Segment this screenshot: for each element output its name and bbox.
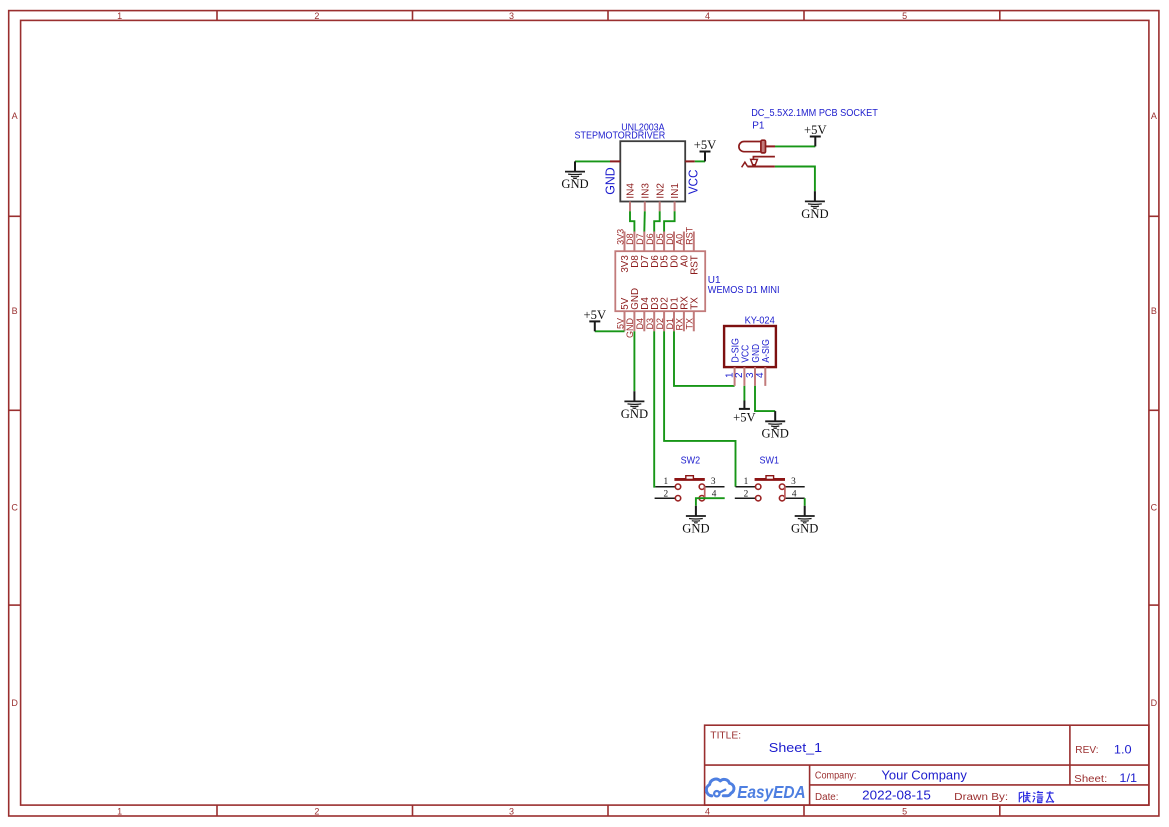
U1 pin 3V3 (top): [615, 229, 631, 273]
svg-text:4: 4: [705, 806, 710, 816]
M1 pin 1 D-SIG: [724, 338, 741, 386]
svg-text:4: 4: [705, 11, 710, 21]
svg-text:SW2: SW2: [681, 456, 701, 467]
wire IN3 to D7: [643, 211, 646, 231]
U2 pin IN1: [670, 183, 681, 212]
svg-text:D: D: [11, 698, 18, 708]
svg-text:IN4: IN4: [626, 183, 637, 199]
EasyEDA logo cloud: [706, 779, 734, 796]
U1 pin D8 (top): [625, 232, 641, 268]
wire U2 GND to ground: [575, 160, 610, 162]
power +5V at M1 VCC (down): [733, 401, 756, 425]
wire net D2 to SW1: [664, 331, 735, 486]
svg-text:WEMOS D1 MINI: WEMOS D1 MINI: [708, 285, 780, 296]
U1 pin D7 (top): [635, 232, 651, 268]
title block grid: [705, 725, 1149, 805]
svg-text:D7: D7: [635, 233, 645, 245]
svg-text:1/1: 1/1: [1119, 771, 1137, 785]
svg-text:Date:: Date:: [815, 792, 839, 803]
svg-text:D5: D5: [655, 233, 665, 245]
svg-text:Sheet_1: Sheet_1: [769, 740, 822, 755]
pushbutton SW2: [655, 476, 725, 501]
svg-text:RST: RST: [685, 226, 695, 245]
svg-text:DC_5.5X2.1MM PCB SOCKET: DC_5.5X2.1MM PCB SOCKET: [751, 108, 878, 119]
svg-text:P1: P1: [752, 121, 765, 132]
U2 pin VCC (right): [685, 161, 700, 194]
svg-text:VCC: VCC: [740, 345, 751, 363]
U1 value label WEMOS D1 MINI: [708, 285, 780, 296]
power +5V at U1 5V: [584, 308, 607, 331]
U1 pin D1 (bottom): [665, 297, 681, 331]
U1 pin D4 (bottom): [635, 297, 651, 332]
svg-text:REV:: REV:: [1075, 745, 1098, 756]
svg-text:A0: A0: [675, 234, 685, 245]
company value Your Company: [881, 768, 967, 782]
title value Sheet_1: [769, 740, 822, 755]
op-amp driver IC U2 UNL2003A body: [620, 141, 685, 201]
svg-text:1.0: 1.0: [1114, 742, 1132, 756]
ground GND below U1: [621, 391, 648, 421]
ground GND at SW2: [682, 506, 709, 536]
U2 pin IN3: [640, 183, 651, 212]
wire net D1 to KY-024 pin1: [674, 331, 735, 386]
wire SW2 pin4 to ground: [696, 498, 725, 506]
svg-text:D0: D0: [665, 233, 675, 245]
svg-text:5: 5: [902, 11, 907, 21]
connector P1 DC socket barrel: [739, 140, 766, 153]
svg-text:SW1: SW1: [760, 456, 780, 467]
svg-text:D2: D2: [655, 318, 665, 330]
date value 2022-08-15: [862, 789, 931, 803]
M1 pin 4 A-SIG: [755, 339, 772, 386]
svg-text:D: D: [1151, 698, 1158, 708]
U1 pin RX (bottom): [675, 296, 691, 332]
wire U1 5V to +5V: [595, 330, 625, 332]
U2 value label UNL2003A: [621, 122, 665, 133]
wire net D3 to SW2: [654, 331, 655, 486]
ground GND at SW1: [791, 506, 818, 536]
U1 pin D3 (bottom): [645, 297, 661, 332]
M1 pin 2 VCC: [734, 345, 751, 386]
wire IN4 to D8: [630, 211, 634, 231]
svg-text:2: 2: [314, 806, 319, 816]
SW2 reference label: [681, 456, 701, 467]
svg-text:RX: RX: [675, 318, 685, 331]
svg-text:2: 2: [314, 11, 319, 21]
P1 pin 2 switch contact: [742, 157, 775, 168]
svg-text:C: C: [1151, 503, 1158, 513]
svg-text:VCC: VCC: [686, 170, 700, 195]
svg-text:3: 3: [509, 806, 514, 816]
U1 pin D6 (top): [645, 232, 661, 268]
title label TITLE:: [710, 731, 741, 742]
wire M1 GND to ground: [755, 386, 775, 411]
EasyEDA logo wordmark: [737, 782, 806, 802]
U1 pin D2 (bottom): [655, 297, 671, 331]
svg-text:Drawn By:: Drawn By:: [954, 792, 1008, 803]
pushbutton SW1: [735, 476, 805, 501]
power +5V at U2 VCC: [694, 138, 717, 161]
U2 pin GND (left): [603, 161, 620, 194]
company label Company:: [815, 771, 857, 782]
wire IN2 to D6: [654, 211, 660, 231]
sheet label Sheet:: [1074, 774, 1107, 785]
sheet value 1/1: [1119, 771, 1137, 785]
rev value 1.0: [1114, 742, 1132, 756]
wire P1 tip to +5V: [775, 145, 815, 147]
svg-text:2: 2: [734, 372, 745, 378]
svg-text:STEPMOTORDRIVER: STEPMOTORDRIVER: [575, 131, 666, 142]
svg-text:D4: D4: [635, 318, 645, 330]
svg-text:IN1: IN1: [670, 183, 681, 199]
svg-text:EasyEDA: EasyEDA: [737, 782, 806, 802]
svg-text:3V3: 3V3: [615, 229, 625, 245]
date label Date:: [815, 792, 839, 803]
svg-text:D8: D8: [625, 233, 635, 245]
U1 reference label: [708, 275, 721, 286]
wire IN1 to D5: [664, 211, 675, 231]
drawn-by label Drawn By:: [954, 792, 1008, 803]
U1 pin TX (bottom): [685, 297, 701, 332]
svg-text:Your Company: Your Company: [881, 768, 967, 782]
svg-text:B: B: [12, 306, 18, 316]
M1 name label KY-024: [745, 315, 776, 326]
svg-text:IN3: IN3: [640, 183, 651, 199]
rev label REV:: [1075, 745, 1098, 756]
svg-text:GND: GND: [603, 167, 617, 195]
U2 pin IN4: [626, 183, 637, 212]
wire U2 VCC to +5V: [695, 160, 705, 162]
svg-text:3: 3: [509, 11, 514, 21]
svg-text:1: 1: [117, 11, 122, 21]
svg-text:TX: TX: [689, 297, 700, 310]
U1 pin RST (top): [685, 226, 701, 274]
P1 reference label: [752, 121, 765, 132]
U2 pin IN2: [655, 183, 666, 212]
svg-text:A-SIG: A-SIG: [761, 339, 772, 363]
wire SW1 pin4 to ground: [804, 498, 806, 506]
svg-text:RST: RST: [689, 255, 700, 275]
U1 pin 5V (bottom): [615, 297, 631, 331]
svg-text:TITLE:: TITLE:: [710, 731, 741, 742]
svg-text:KY-024: KY-024: [745, 315, 776, 326]
svg-text:A: A: [1151, 111, 1157, 121]
svg-text:C: C: [11, 503, 18, 513]
svg-text:5: 5: [902, 806, 907, 816]
U1 pin GND (bottom): [625, 288, 641, 338]
wire M1 VCC to +5V: [743, 386, 745, 401]
P1 name label DC_5.5X2.1MM PCB SOCKET: [751, 108, 878, 119]
M1 pin 3 GND: [745, 344, 762, 386]
svg-text:2022-08-15: 2022-08-15: [862, 789, 931, 803]
ground GND at M1: [762, 411, 789, 441]
svg-text:1: 1: [117, 806, 122, 816]
U2 name label STEPMOTORDRIVER: [575, 131, 666, 142]
drawn-by value (CJK name): [1019, 791, 1054, 802]
ground GND at U2: [561, 161, 588, 191]
svg-text:D6: D6: [645, 233, 655, 245]
svg-text:B: B: [1151, 306, 1157, 316]
sensor module M1 KY-024 body: [724, 326, 776, 367]
U1 pin A0 (top): [675, 232, 691, 268]
wire P1 sleeve to ground: [775, 167, 815, 192]
svg-text:TX: TX: [685, 318, 695, 330]
U1 pin D5 (top): [655, 232, 671, 268]
U1 pin D0 (top): [665, 232, 681, 268]
svg-text:Company:: Company:: [815, 771, 857, 782]
svg-text:IN2: IN2: [655, 183, 666, 199]
svg-text:D3: D3: [645, 318, 655, 330]
power +5V at P1: [804, 123, 827, 146]
svg-text:A: A: [12, 111, 18, 121]
SW1 reference label: [760, 456, 780, 467]
svg-text:5V: 5V: [615, 318, 625, 329]
svg-text:D1: D1: [665, 318, 675, 330]
wire U1 GND down: [633, 331, 635, 391]
svg-text:4: 4: [755, 372, 766, 378]
ground GND at P1: [801, 191, 828, 221]
MCU module U1 WEMOS D1 MINI body: [615, 251, 705, 311]
svg-text:Sheet:: Sheet:: [1074, 774, 1107, 785]
P1 pin 1 (tip): [766, 145, 776, 147]
